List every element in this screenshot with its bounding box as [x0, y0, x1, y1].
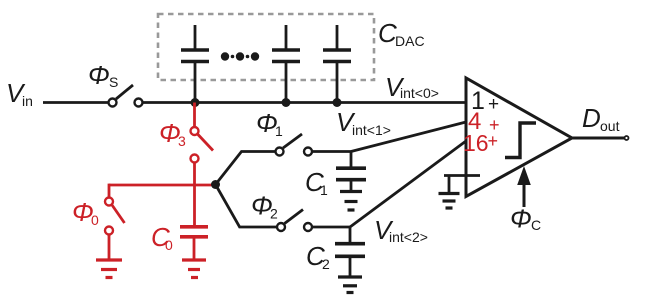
svg-text:D: D	[582, 103, 601, 133]
svg-text:Φ: Φ	[510, 204, 532, 234]
label Vin	[6, 78, 33, 109]
wire node A to switch Phi1	[216, 152, 276, 185]
ground at Phi0 red	[96, 260, 122, 278]
svg-text:Φ: Φ	[88, 60, 110, 90]
wire red: corner down to Phi0	[108, 184, 111, 198]
capacitor DAC cap 1	[181, 25, 209, 103]
pin label 4 + red	[468, 108, 500, 135]
label net Vint<1>	[336, 107, 391, 138]
node junction cap3 on Vint<0>	[333, 98, 342, 107]
clock arrow PhiC into comparator	[517, 166, 531, 207]
node junction cap2 on Vint<0>	[282, 98, 291, 107]
svg-text:0: 0	[165, 237, 173, 253]
node A junction dot	[211, 180, 220, 189]
capacitor C1	[336, 152, 366, 191]
comparator U1 triangle	[466, 78, 572, 197]
svg-text:0: 0	[91, 212, 99, 228]
switch Phi3 red	[191, 127, 214, 163]
label C1	[305, 167, 328, 198]
wire red horizontal bus to Phi0	[109, 184, 216, 187]
node junction cap1 on Vint<0>	[191, 98, 200, 107]
svg-text:3: 3	[178, 133, 186, 149]
svg-text:+: +	[488, 131, 499, 151]
svg-text:int<1>: int<1>	[352, 122, 391, 138]
switch Phi1	[276, 134, 313, 156]
label PhiS	[88, 60, 118, 90]
wire red: main line down to switch Phi3	[193, 103, 196, 128]
pin label 16+ red	[463, 130, 498, 156]
svg-text:2: 2	[270, 206, 278, 222]
label net Vint<0>	[385, 72, 439, 102]
label Phi0 red	[72, 197, 99, 228]
label Phi2	[251, 191, 278, 222]
ellipsis dots inside CDAC box	[221, 52, 259, 60]
switch PhiS	[109, 85, 143, 107]
label CDAC	[378, 18, 425, 49]
step icon inside comparator	[505, 123, 536, 158]
label Dout	[582, 103, 620, 134]
svg-text:+: +	[488, 94, 499, 115]
wire Vin to switch PhiS	[43, 101, 109, 104]
wire red: Phi3 down to C0	[193, 163, 196, 226]
wire Phi2 to C2 node	[312, 226, 350, 229]
label net Vint<2>	[374, 215, 428, 245]
wire red: Phi0 to ground	[108, 235, 111, 260]
wire net Vint<1>: C1 node to comparator	[351, 122, 466, 152]
ground at C2	[338, 277, 362, 293]
label C2	[306, 241, 330, 272]
wire net Vint<2>: C2 node to comparator	[350, 141, 466, 227]
svg-text:in: in	[22, 93, 33, 109]
svg-text:DAC: DAC	[395, 33, 425, 49]
ground at comparator reference input	[439, 176, 481, 209]
pin label 1 +	[471, 87, 499, 115]
label PhiC	[510, 204, 541, 234]
ground at C0 red	[182, 260, 206, 278]
svg-text:C: C	[531, 217, 541, 233]
output wire Dout	[572, 137, 624, 140]
label Phi3 red	[159, 118, 186, 149]
svg-text:1: 1	[320, 182, 328, 198]
terminal Dout	[625, 136, 629, 140]
capacitor DAC cap 3	[323, 25, 351, 103]
capacitor C2	[335, 227, 365, 276]
svg-text:16: 16	[463, 130, 489, 156]
svg-text:2: 2	[322, 256, 330, 272]
capacitor C0 red	[180, 227, 208, 259]
wire Phi1 to C1 node	[312, 150, 351, 153]
svg-text:out: out	[600, 118, 620, 134]
switch Phi0 red	[105, 198, 125, 235]
svg-text:1: 1	[275, 123, 283, 139]
switch Phi2	[277, 210, 312, 232]
svg-text:S: S	[109, 74, 118, 90]
label C0 red	[151, 222, 173, 253]
ground at C1	[340, 192, 362, 211]
capacitor DAC cap 2	[272, 25, 300, 103]
svg-text:int<0>: int<0>	[400, 85, 439, 101]
wire net Vint<0>: switch to comparator	[143, 101, 467, 104]
svg-text:int<2>: int<2>	[389, 229, 428, 245]
wire node A to switch Phi2	[216, 185, 278, 228]
dashed box CDAC	[158, 14, 374, 80]
label Phi1	[256, 108, 283, 139]
